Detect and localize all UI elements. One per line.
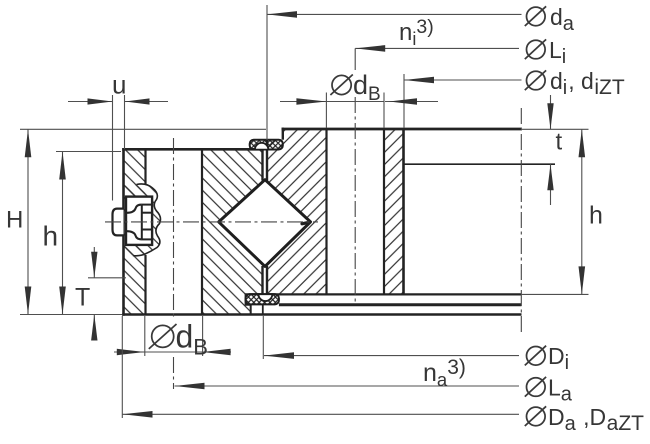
grease nipple — [113, 197, 153, 245]
svg-text:T: T — [75, 284, 90, 312]
svg-text:t: t — [556, 129, 563, 156]
dimension H (overall height) — [27, 129, 29, 314]
outer ring bolt hole centerline — [173, 138, 175, 389]
svg-text:u: u — [112, 70, 126, 100]
bottom surface extension line — [20, 314, 122, 316]
inner ring bottom extension line — [521, 293, 589, 295]
dimension diameter da — [267, 5, 522, 140]
dimension diameter Di — [263, 316, 519, 359]
roller centerline (horizontal) — [105, 221, 318, 223]
outer ring bolt hole (white) — [146, 148, 203, 316]
crossed roller fill (white diamond) — [219, 180, 311, 267]
grease nipple break-out boundary (freehand) — [133, 184, 161, 256]
outer ring section fill (hatched) — [124, 149, 263, 314]
dimension t (recess depth) — [550, 95, 552, 205]
dimension diameter dB (outer ring bolt hole, bottom) — [114, 316, 231, 356]
svg-text:h: h — [43, 221, 59, 252]
dimension u (nipple protrusion) — [68, 95, 168, 201]
svg-text:h: h — [589, 202, 603, 230]
dimension diameter di and diZT — [404, 74, 522, 128]
inner ring bolt hole (white) — [327, 128, 385, 296]
dimension h (inner ring height, right) — [581, 129, 583, 294]
dimension diameter dB (inner ring bolt hole, top) — [280, 93, 438, 129]
raceway groove apex notch — [302, 222, 310, 224]
dimension diameter Da and DaZT — [122, 316, 519, 418]
dimension h (outer ring height, left) — [62, 152, 64, 315]
outer ring top extension line — [56, 151, 121, 153]
inner ring bolt hole centerline — [354, 48, 356, 303]
outer ring outline — [122, 148, 521, 316]
top surface extension line — [20, 128, 589, 130]
svg-text:H: H — [6, 207, 23, 234]
crossed roller outline (diamond) — [219, 180, 311, 267]
grease nipple break-out blob (hatched) — [124, 184, 161, 256]
centering recess step edge (diZT depth t) — [404, 163, 556, 165]
dimension diameter La with count na — [175, 385, 520, 387]
dimension T — [88, 247, 126, 333]
dimension diameter Li with count ni — [355, 47, 519, 49]
upper seal — [250, 140, 283, 150]
bore reference centerline — [520, 108, 522, 332]
inner ring section fill (hatched) — [267, 129, 404, 294]
inner ring bolt hole edges — [327, 129, 385, 294]
outer ring bolt hole edges — [146, 149, 203, 314]
lower seal — [246, 294, 279, 304]
inner ring outline — [266, 128, 522, 296]
bottom support plate — [263, 305, 522, 315]
